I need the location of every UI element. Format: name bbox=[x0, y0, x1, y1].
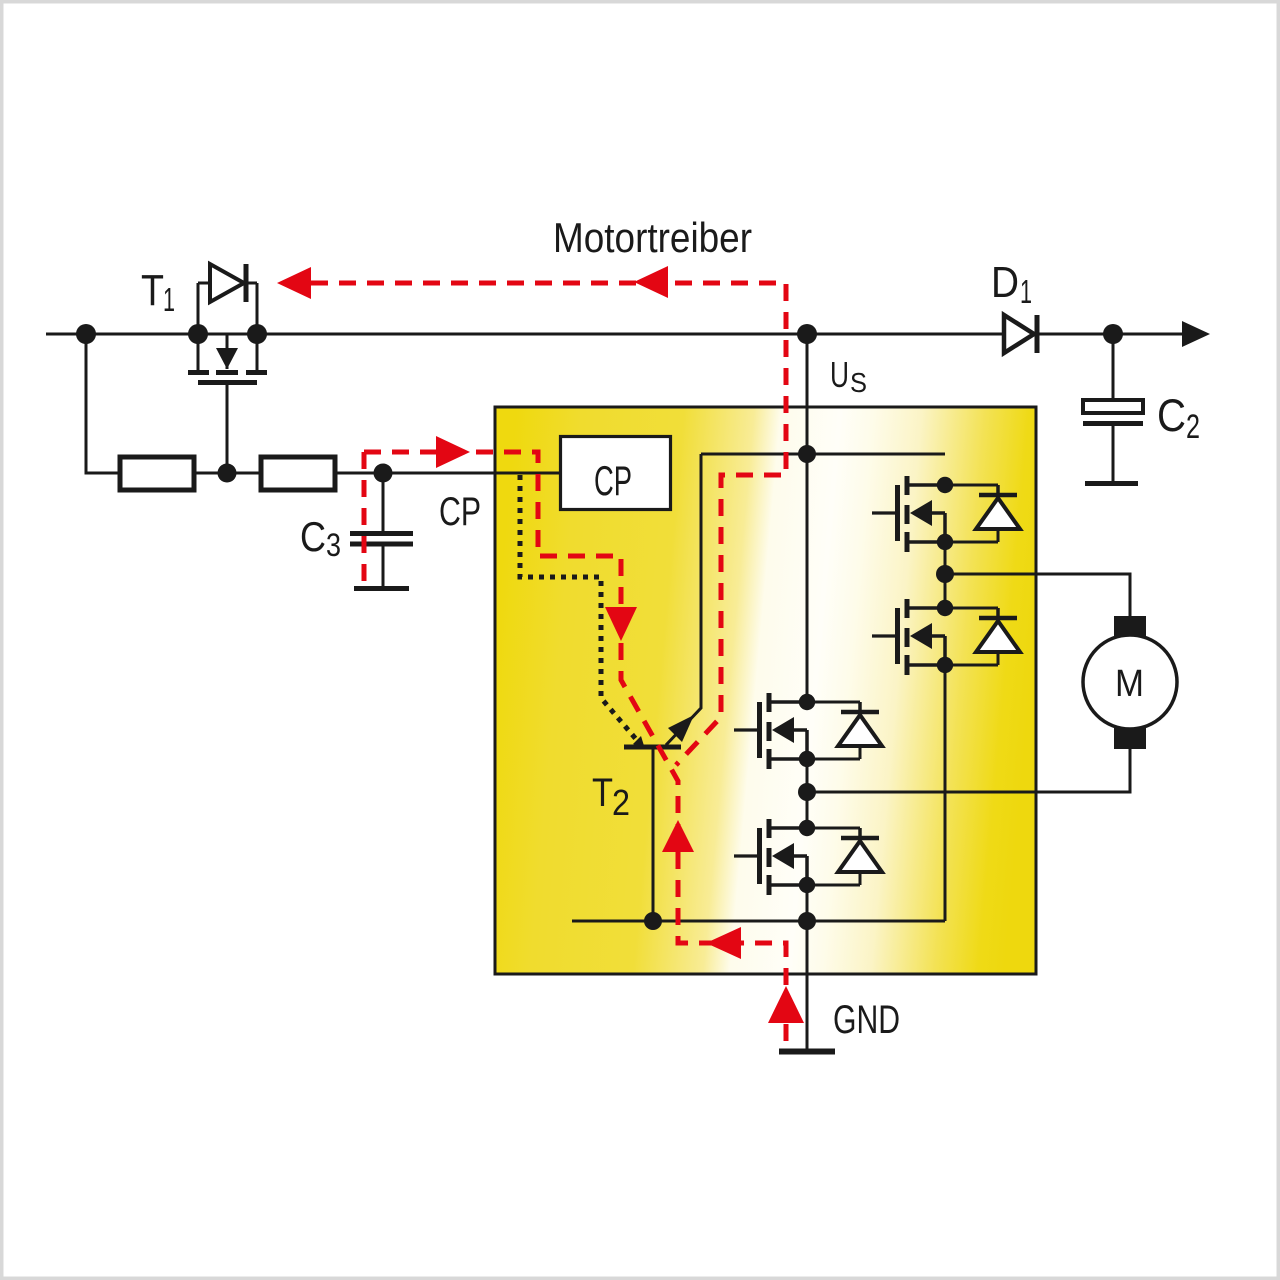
node: emitter junction bbox=[644, 912, 662, 930]
svg-text:CP: CP bbox=[439, 490, 481, 534]
motor driver IC box (yellow) bbox=[495, 407, 1036, 974]
wire: T1 gate lead bbox=[226, 385, 229, 473]
svg-text:3: 3 bbox=[326, 527, 341, 563]
MOSFET M4 (low side left) bbox=[734, 819, 882, 895]
MOSFET M3 (high side left) bbox=[734, 693, 882, 769]
node: C2 junction on rail bbox=[1103, 324, 1123, 344]
T2 collector arrowhead bbox=[668, 715, 694, 742]
svg-text:C: C bbox=[300, 513, 326, 560]
diode D1 bbox=[1004, 315, 1037, 353]
wire: US drop from rail into IC bbox=[806, 334, 809, 702]
svg-text:1: 1 bbox=[163, 281, 175, 318]
svg-text:CP: CP bbox=[594, 457, 632, 504]
node: US internal junction bbox=[798, 445, 816, 463]
transistor T2 collector riser bbox=[666, 454, 701, 745]
label T2 bbox=[592, 771, 630, 823]
node: gate junction bbox=[218, 464, 237, 483]
label C3 bbox=[300, 513, 341, 563]
transistor T1 (P-MOSFET) body diode bbox=[198, 264, 257, 334]
node: CP node junction bbox=[374, 464, 393, 483]
svg-text:GND: GND bbox=[833, 998, 900, 1042]
svg-text:M: M bbox=[1115, 663, 1144, 705]
node: T1 source on rail bbox=[188, 324, 208, 344]
wire: left branch down to resistor R1 bbox=[86, 334, 120, 473]
red arrow up at GND bbox=[768, 986, 804, 1023]
wire: phase A to motor bbox=[945, 574, 1130, 618]
label T1 bbox=[141, 266, 175, 318]
red arrow left at bottom bbox=[706, 927, 741, 959]
label C2 bbox=[1157, 390, 1200, 446]
MOSFET M2 (low side right) bbox=[872, 599, 1020, 675]
svg-text:S: S bbox=[850, 367, 867, 398]
MOSFET M1 (high side right) bbox=[872, 476, 1020, 552]
svg-text:2: 2 bbox=[1186, 408, 1200, 446]
black dotted path arrowhead bbox=[633, 736, 645, 749]
capacitor C2 bbox=[1083, 334, 1143, 484]
resistor R2 bbox=[261, 457, 335, 490]
svg-text:Motortreiber: Motortreiber bbox=[553, 214, 752, 261]
svg-text:U: U bbox=[830, 354, 849, 395]
red arrow left middle bbox=[634, 266, 668, 298]
svg-text:C: C bbox=[1157, 390, 1186, 441]
red dashed: Motortreiber loop bbox=[311, 283, 786, 765]
transistor T2 base bar bbox=[624, 745, 681, 750]
node: phase A bbox=[936, 565, 954, 583]
red arrow up at emitter path bbox=[662, 820, 694, 852]
node: US on rail bbox=[797, 324, 817, 344]
wire M3 source to M4 drain bbox=[806, 759, 809, 828]
node: phase B bbox=[798, 783, 816, 801]
wire M2 source to bottom rail bbox=[944, 665, 947, 921]
red dashed: C3 bypass vertical bbox=[362, 452, 367, 588]
node: GND junction bbox=[798, 912, 816, 930]
red arrow toward CP bbox=[436, 436, 470, 468]
wire: bottom internal rail bbox=[572, 920, 945, 923]
resistor R1 bbox=[120, 457, 194, 490]
wire M1 source to M2 drain bbox=[944, 542, 947, 608]
wire: phase B to motor bbox=[807, 748, 1130, 792]
wire M4 source to bottom rail bbox=[806, 885, 809, 921]
charge pump block CP bbox=[561, 437, 671, 510]
node: T1 drain on rail bbox=[247, 324, 267, 344]
ground bar bbox=[779, 1049, 835, 1055]
arrowhead at right end of supply rail bbox=[1182, 321, 1210, 347]
red dashed: CP drive path bbox=[364, 452, 786, 1042]
wire: T2 emitter bbox=[652, 749, 655, 921]
svg-text:2: 2 bbox=[612, 782, 630, 823]
black dotted: CP to T2 base path bbox=[520, 475, 641, 745]
label US bbox=[830, 354, 867, 398]
wire: internal top rail y454 bbox=[701, 453, 945, 456]
wire: GND drop bbox=[806, 921, 809, 1049]
wire: R1 to R2 bbox=[194, 472, 261, 475]
label D1 bbox=[991, 258, 1032, 310]
red arrow left near T1 bbox=[277, 267, 311, 299]
transistor T1 MOSFET symbol bbox=[188, 334, 267, 383]
red arrow down in IC bbox=[605, 607, 637, 641]
svg-text:1: 1 bbox=[1020, 273, 1032, 310]
svg-text:T: T bbox=[592, 771, 613, 815]
node: left junction bbox=[76, 324, 96, 344]
motor M bbox=[1083, 616, 1177, 749]
wire: R2 to CP input bbox=[335, 472, 560, 475]
svg-text:T: T bbox=[141, 266, 164, 315]
svg-text:D: D bbox=[991, 258, 1019, 307]
wire: top supply rail bbox=[46, 333, 1184, 336]
capacitor C3 bbox=[350, 473, 413, 589]
